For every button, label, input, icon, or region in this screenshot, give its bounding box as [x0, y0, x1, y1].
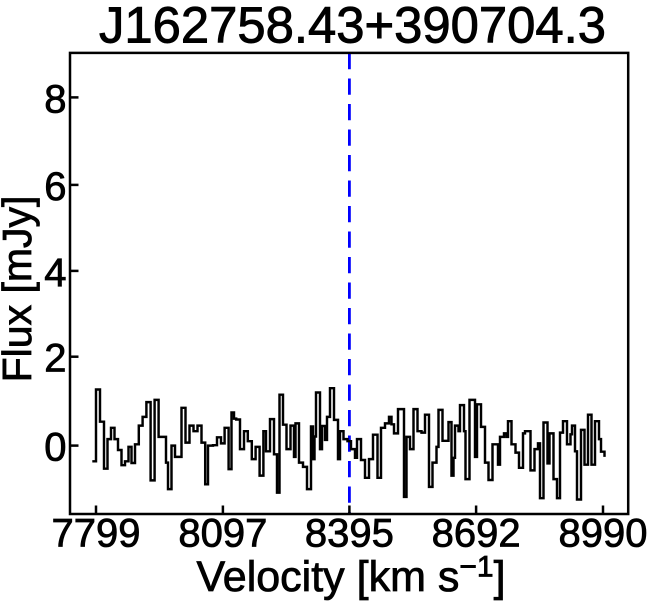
- svg-text:8: 8: [44, 77, 66, 121]
- svg-text:4: 4: [44, 251, 66, 295]
- svg-text:Velocity [km s−1]: Velocity [km s−1]: [196, 551, 505, 602]
- svg-text:2: 2: [44, 337, 66, 381]
- svg-text:Flux [mJy]: Flux [mJy]: [0, 196, 40, 383]
- flux spectrum step line: [92, 388, 604, 499]
- svg-text:6: 6: [44, 165, 66, 209]
- axes box: [70, 53, 628, 514]
- y ticks: [70, 97, 79, 445]
- svg-text:0: 0: [44, 426, 66, 470]
- svg-text:8097: 8097: [178, 512, 267, 556]
- svg-text:J162758.43+390704.3: J162758.43+390704.3: [99, 0, 606, 54]
- blue dashed vertical line at 8395 km/s: [348, 53, 351, 514]
- x ticks: [96, 506, 603, 515]
- svg-text:7799: 7799: [52, 512, 141, 556]
- svg-text:8395: 8395: [305, 512, 394, 556]
- svg-text:8692: 8692: [432, 512, 521, 556]
- svg-text:8990: 8990: [559, 512, 648, 556]
